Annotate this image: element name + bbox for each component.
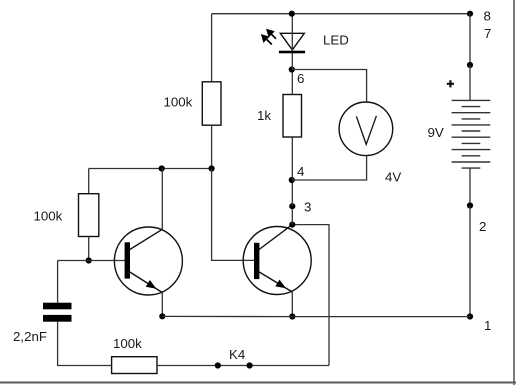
svg-text:9V: 9V xyxy=(428,125,444,140)
svg-text:100k: 100k xyxy=(34,209,63,224)
wire node 2 to node 1 xyxy=(469,206,471,317)
svg-text:8: 8 xyxy=(484,9,491,24)
wire T1 base rail xyxy=(58,260,125,262)
wire to T2 base (vertical drop) xyxy=(212,169,254,261)
wire node 6 to voltmeter top xyxy=(292,70,367,103)
wire R2 bottom lead xyxy=(88,237,90,261)
LED light arrow 2 xyxy=(262,35,272,44)
wire left branch down to R2 xyxy=(88,169,90,194)
battery B1 plus sign xyxy=(447,80,454,87)
wire terminal 7 to battery + xyxy=(469,65,471,100)
LED D1 triangle xyxy=(280,33,304,50)
resistor R2 100k xyxy=(79,194,99,237)
wire T2 emitter down xyxy=(291,292,293,317)
wire node 4 to R4 xyxy=(291,137,293,180)
wire emitter rail left segment xyxy=(162,315,292,317)
node junction T2 collector xyxy=(289,222,295,228)
wire 100k R1 top lead xyxy=(211,14,213,82)
node 3 xyxy=(289,203,295,209)
LED D1 cathode bar xyxy=(279,51,305,54)
node junction T1 emitter xyxy=(159,313,165,319)
switch K4 terminal a xyxy=(215,362,221,368)
node 1 xyxy=(467,313,473,319)
wire bottom rail to switch xyxy=(157,365,329,367)
resistor R3 100k (horizontal) xyxy=(112,357,157,374)
transistor T2 body xyxy=(243,227,311,295)
svg-text:2,2nF: 2,2nF xyxy=(13,329,47,344)
transistor T2 emitter stroke xyxy=(258,272,292,293)
wire R1 bottom lead xyxy=(211,125,213,168)
svg-text:2: 2 xyxy=(479,219,486,234)
svg-text:7: 7 xyxy=(484,26,491,41)
svg-text:LED: LED xyxy=(323,33,349,48)
wire voltmeter bottom to node 4 xyxy=(292,156,367,180)
node 6 xyxy=(289,66,295,72)
node junction at T1 collector xyxy=(159,165,165,171)
capacitor C1 bottom plate xyxy=(43,315,72,322)
voltmeter V glyph xyxy=(356,116,376,144)
wire R4 top to node 6 xyxy=(291,70,293,95)
wire node 3 to node 4 xyxy=(291,180,293,206)
svg-text:1: 1 xyxy=(484,318,491,333)
node 4 xyxy=(289,177,295,183)
terminal node 7 xyxy=(467,62,473,68)
wire emitter rail xyxy=(292,316,470,318)
frame right edge xyxy=(513,0,515,385)
wire node 6 to LED cathode xyxy=(291,51,293,70)
resistor R1 100k xyxy=(202,82,221,125)
node junction R2/base rail xyxy=(86,257,92,263)
frame bottom edge xyxy=(0,382,516,384)
svg-text:1k: 1k xyxy=(257,108,271,123)
switch K4 terminal b xyxy=(247,362,253,368)
node junction at R1/collector rail xyxy=(209,165,215,171)
wire capacitor top lead xyxy=(57,261,59,303)
svg-text:3: 3 xyxy=(304,200,311,215)
node 8 junction (top right) xyxy=(467,11,473,17)
wire capacitor bottom lead xyxy=(58,322,112,366)
wire collector node up to node 3 xyxy=(291,206,293,224)
wire T1 emitter down xyxy=(161,293,163,317)
transistor T2 emitter arrowhead xyxy=(275,280,286,289)
transistor T2 base bar xyxy=(254,243,259,279)
svg-text:100k: 100k xyxy=(113,336,142,351)
wire horizontal collector rail xyxy=(89,168,212,170)
transistor T1 base bar xyxy=(125,242,130,278)
LED light arrow 1 xyxy=(267,30,276,39)
battery B1 cells xyxy=(452,100,491,168)
voltmeter M1 body xyxy=(339,102,393,156)
node 2 xyxy=(467,202,473,208)
svg-text:6: 6 xyxy=(297,71,304,86)
svg-text:100k: 100k xyxy=(164,95,193,110)
node junction T2 emitter xyxy=(289,313,295,319)
transistor T1 collector stroke xyxy=(129,229,162,250)
resistor R4 1k xyxy=(283,95,302,138)
transistor T1 body xyxy=(114,227,182,295)
node junction top rail / LED xyxy=(289,11,295,17)
wire top rail xyxy=(212,13,470,15)
wire LED anode to top rail xyxy=(291,14,293,51)
wire battery - down to node 2 xyxy=(469,168,471,205)
svg-text:4: 4 xyxy=(297,164,304,179)
wire T1 collector up xyxy=(161,169,163,230)
svg-text:K4: K4 xyxy=(229,347,245,362)
capacitor C1 2,2nF top plate xyxy=(43,303,72,310)
svg-text:4V: 4V xyxy=(385,170,401,185)
transistor T1 emitter arrowhead xyxy=(146,280,157,289)
wire bottom rail up to T2 collector node xyxy=(292,225,329,366)
transistor T1 emitter stroke xyxy=(129,272,162,293)
transistor T2 collector stroke xyxy=(258,225,292,250)
wire node 8 down to terminal 7 xyxy=(469,14,471,65)
